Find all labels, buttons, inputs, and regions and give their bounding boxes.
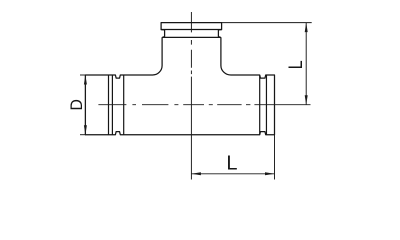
left outlet groove edge line 1 bbox=[108, 75, 110, 135]
extension line bottom of D dimension bbox=[80, 134, 86, 136]
arrowhead right L top bbox=[305, 23, 308, 32]
arrowhead L bottom left bbox=[191, 172, 201, 175]
dimension line D (left, vertical) bbox=[84, 75, 86, 135]
branch groove shoulder line bbox=[162, 36, 221, 38]
extension line from branch top face to right L dimension bbox=[222, 22, 312, 24]
extension line right end face down to L dimension bbox=[274, 135, 276, 180]
svg-text:L: L bbox=[226, 153, 237, 175]
extension line top of D dimension bbox=[80, 74, 86, 76]
arrowhead D top bbox=[84, 75, 87, 85]
right outlet groove edge line 1 bbox=[259, 75, 261, 135]
branch rim bottom edge line bbox=[161, 29, 222, 31]
dimension line L (right, vertical) bbox=[305, 23, 307, 105]
vertical centerline of branch (dash-dot, continues below as extension line) bbox=[190, 12, 192, 180]
arrowhead right L bottom bbox=[305, 95, 308, 105]
arrowhead D bottom bbox=[84, 125, 87, 135]
tee fitting body outline (run and branch with grooved ends) bbox=[85, 23, 274, 135]
left outlet groove edge line 3 bbox=[123, 75, 125, 135]
svg-text:L: L bbox=[284, 60, 306, 69]
dimension line L (bottom, horizontal) bbox=[191, 173, 274, 175]
horizontal centerline of run (dash-dot, continues right as extension line) bbox=[98, 104, 310, 106]
right outlet groove edge line 2 bbox=[265, 75, 267, 135]
arrowhead L bottom right bbox=[265, 172, 275, 175]
svg-text:D: D bbox=[68, 99, 87, 111]
left outlet groove edge line 2 bbox=[111, 75, 113, 135]
